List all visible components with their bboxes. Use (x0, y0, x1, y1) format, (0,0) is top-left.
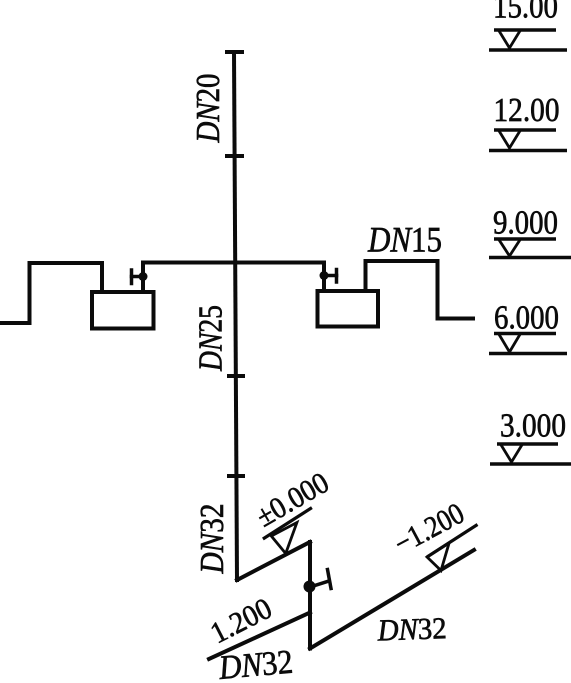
valve bottom: stem (310, 581, 329, 587)
junction dot left valve (139, 272, 148, 281)
left branch entry wire (bottom-left horizontal) (0, 321, 30, 325)
valve bottom: T-bar (328, 570, 332, 589)
branch DN15 horizontal wire through riser (143, 261, 324, 265)
fixture tank left (rectangle) (92, 292, 154, 329)
bottom diagonal pipe A (riser to basement) (237, 542, 310, 580)
riser floor tick at y476 (229, 474, 243, 478)
svg-text:−1.200: −1.200 (389, 497, 470, 561)
left branch riser-up wire (28, 263, 32, 323)
valve right: stem (324, 274, 337, 278)
junction dot bottom valve (304, 581, 316, 593)
svg-text:15.00: 15.00 (493, 0, 558, 26)
elevation marker 9.000 (489, 239, 571, 258)
left fixture feed drop wire (100, 263, 104, 292)
svg-text:6.000: 6.000 (494, 300, 559, 337)
svg-text:DN32: DN32 (194, 504, 231, 575)
junction dot right valve (320, 271, 329, 280)
svg-text:9.000: 9.000 (493, 205, 558, 242)
svg-text:DN20: DN20 (190, 74, 227, 144)
elevation marker 12.00 (489, 130, 567, 151)
elevation marker 15.00 (489, 30, 567, 50)
valve right: T-bar (335, 270, 339, 283)
svg-text:12.00: 12.00 (494, 92, 560, 129)
outgoing diagonal pipe D (-1.200 DN32) (310, 550, 474, 649)
fixture tank right (rectangle) (318, 291, 379, 327)
svg-text:3.000: 3.000 (500, 408, 566, 445)
svg-text:DN25: DN25 (193, 305, 230, 372)
left fixture outlet riser wire with valve (141, 263, 145, 292)
svg-text:DN32: DN32 (376, 611, 447, 647)
svg-text:DN15: DN15 (367, 220, 442, 260)
right branch exit wire (438, 317, 474, 321)
valve left: T-bar (130, 270, 134, 284)
svg-text:DN32: DN32 (217, 644, 295, 683)
valve left: stem (132, 275, 144, 279)
incoming diagonal pipe C (1.200 DN32) (209, 613, 310, 660)
left branch top wire (30, 261, 103, 265)
elevation marker ±0.000 on diagonal A (263, 508, 312, 554)
right branch drop wire (436, 261, 440, 319)
elevation marker -1.200 on diagonal D (427, 525, 478, 571)
right branch top wire (366, 259, 438, 263)
riser floor tick at y376 (229, 374, 243, 378)
bottom vertical pipe B (308, 542, 312, 649)
riser top end tick (227, 50, 242, 54)
elevation marker 6.000 (489, 334, 567, 354)
right fixture feed drop wire (322, 263, 326, 292)
riser pipe DN20/DN25/DN32 vertical (234, 52, 237, 580)
right fixture outlet riser wire (364, 261, 368, 291)
riser floor tick at y156 (227, 154, 242, 158)
elevation marker 3.000 (490, 444, 571, 464)
svg-text:1.200: 1.200 (205, 592, 277, 650)
